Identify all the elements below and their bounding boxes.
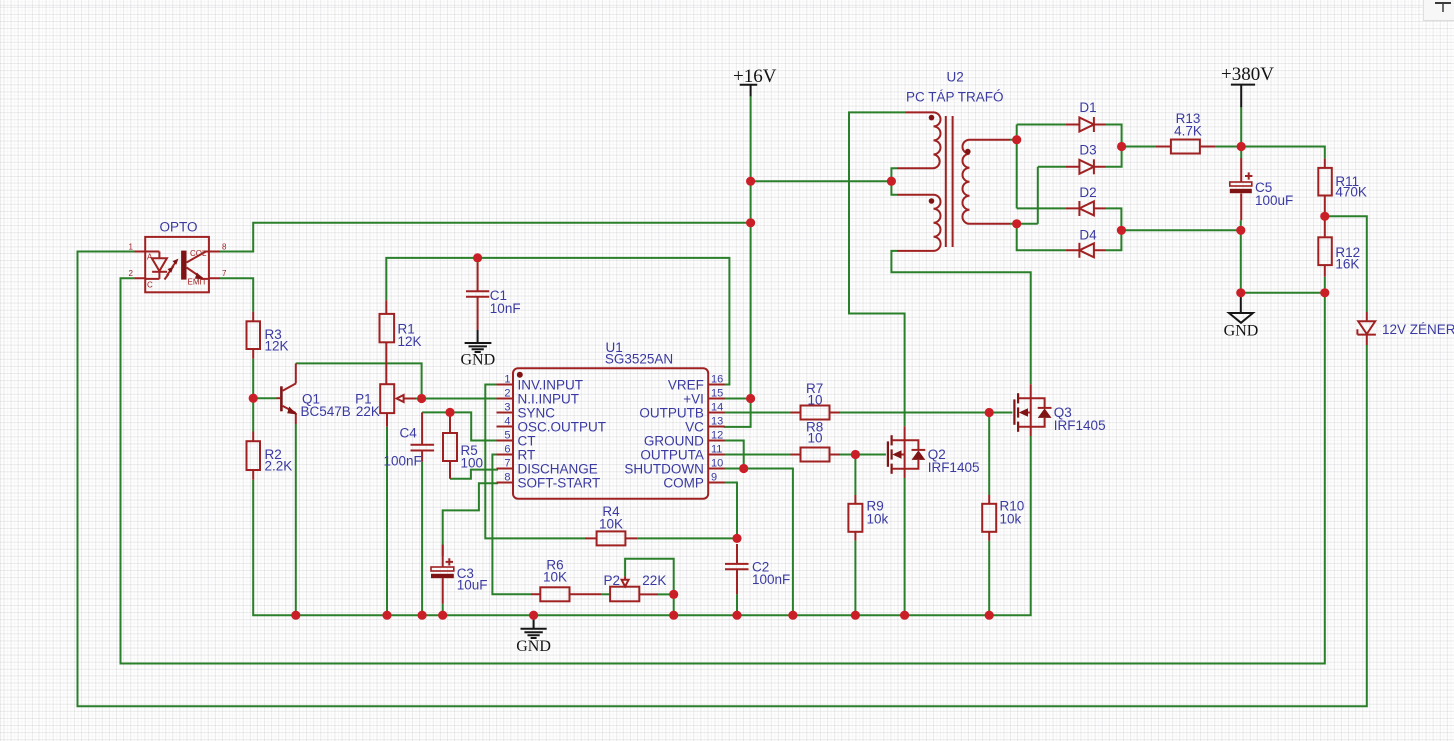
resistor R10 bbox=[982, 504, 996, 532]
wire R7 right to Q3 gate bbox=[840, 412, 1012, 414]
wire D3 left column bbox=[1037, 167, 1039, 224]
svg-text:10: 10 bbox=[711, 458, 723, 470]
resistor R11 bbox=[1318, 168, 1332, 196]
svg-text:RT: RT bbox=[518, 448, 536, 463]
svg-text:+16V: +16V bbox=[733, 66, 777, 87]
svg-text:22K: 22K bbox=[642, 573, 666, 588]
svg-text:5: 5 bbox=[504, 430, 510, 442]
svg-text:GND: GND bbox=[460, 352, 495, 369]
wire pin15 +VI stub to +16V vertical bbox=[724, 398, 751, 400]
wire OPTO pin8 to +16V rail node bbox=[220, 223, 751, 252]
wire RT net U1 pin6 down to R6 bbox=[492, 455, 531, 595]
node D1/D3 cathodes to R13 bbox=[1117, 142, 1126, 151]
IC U1 SG3525AN box bbox=[513, 368, 708, 499]
node C4 bottom on rail bbox=[418, 611, 427, 620]
svg-text:100nF: 100nF bbox=[752, 572, 790, 587]
node R7/R10/Q3 gate bbox=[985, 408, 994, 417]
transformer bottom primary polarity dot bbox=[929, 198, 935, 204]
node D2/D4 anodes bbox=[1117, 226, 1126, 235]
wire P1 bottom to rail bbox=[386, 427, 388, 616]
svg-text:100uF: 100uF bbox=[1255, 193, 1293, 208]
svg-text:12K: 12K bbox=[398, 334, 422, 349]
svg-text:7: 7 bbox=[504, 458, 510, 470]
transistor Q1 bbox=[280, 386, 283, 411]
node COMP/R4/C2 bbox=[732, 534, 741, 543]
wire C5 top stub bbox=[1240, 147, 1242, 159]
svg-text:10: 10 bbox=[808, 430, 823, 445]
svg-text:D4: D4 bbox=[1079, 227, 1097, 242]
wire R4 right to COMP node bbox=[637, 537, 737, 539]
OPTO pin stubs bbox=[135, 252, 221, 279]
svg-text:22K: 22K bbox=[356, 404, 380, 419]
node R11/R12/zener bbox=[1320, 212, 1329, 221]
wire C4 bottom to rail bbox=[421, 462, 423, 616]
node R3/Q1 base junction bbox=[249, 394, 258, 403]
wire D2 left lead bbox=[1017, 207, 1066, 209]
svg-text:N.I.INPUT: N.I.INPUT bbox=[518, 392, 580, 407]
svg-text:SOFT-START: SOFT-START bbox=[518, 476, 601, 491]
svg-text:A: A bbox=[147, 253, 153, 262]
GND triangle symbol under C5 bbox=[1240, 293, 1242, 313]
wire Q1 emitter down to rail bbox=[295, 424, 297, 615]
svg-text:INV.INPUT: INV.INPUT bbox=[518, 378, 584, 393]
wire OPTO pin2 to second bottom loop to R12/C5 ground node bbox=[121, 278, 1325, 663]
node pin12/pin10 junction bbox=[739, 464, 748, 473]
node P2 on rail bbox=[669, 611, 678, 620]
resistor R12 bbox=[1318, 237, 1332, 265]
svg-text:COL: COL bbox=[190, 249, 207, 258]
node R13/+380V/C5 top bbox=[1237, 142, 1246, 151]
svg-text:D2: D2 bbox=[1079, 185, 1096, 200]
svg-text:12V ZÉNER: 12V ZÉNER bbox=[1382, 322, 1454, 337]
svg-text:8: 8 bbox=[222, 242, 227, 251]
svg-text:C4: C4 bbox=[400, 426, 418, 441]
wire P2 wiper loop to right terminal bbox=[625, 559, 674, 595]
svg-text:OPTO: OPTO bbox=[160, 220, 198, 235]
wire secondary bottom terminal to D3 column bbox=[1010, 223, 1038, 225]
capacitor C2 bbox=[725, 564, 749, 569]
resistor R4 bbox=[597, 531, 626, 545]
node +16V to OPTO pin8 wire bbox=[746, 218, 755, 227]
MOSFET Q3 bbox=[1013, 399, 1015, 424]
svg-text:8: 8 bbox=[504, 472, 510, 484]
resistor R2 bbox=[247, 441, 261, 470]
svg-text:+380V: +380V bbox=[1221, 64, 1274, 85]
wire R5 bottom to U1 pin7 DISCHANGE bbox=[450, 470, 498, 479]
transformer top primary winding bbox=[897, 112, 941, 168]
svg-text:VREF: VREF bbox=[668, 378, 704, 393]
svg-text:IRF1405: IRF1405 bbox=[928, 460, 980, 475]
wire transformer center tap column bbox=[891, 168, 897, 194]
svg-text:12K: 12K bbox=[265, 338, 289, 353]
zener diode 12V bbox=[1366, 312, 1368, 345]
wire D1 left lead bbox=[1017, 124, 1066, 126]
wire U1 pin14 OUTPUTB to R7 bbox=[724, 412, 791, 414]
node +16V to transformer bbox=[746, 177, 755, 186]
capacitor C3 polarized bbox=[442, 545, 444, 604]
node +VI pin15 bbox=[746, 394, 755, 403]
wire R6 right to P2 left bbox=[601, 593, 610, 595]
optocoupler OPTO box bbox=[145, 237, 209, 292]
OPTO LED bbox=[145, 252, 159, 279]
node secondary top terminal bbox=[1012, 135, 1021, 144]
diode D1 bbox=[1066, 124, 1106, 126]
wire R10 column gate node to rail bbox=[988, 413, 990, 616]
wire +380V stub down bbox=[1240, 107, 1242, 146]
svg-text:P2: P2 bbox=[604, 573, 621, 588]
wire GND node to R12 bottom node bbox=[1241, 292, 1325, 294]
wire CT net C4/R5 top to U1 pin5 bbox=[422, 412, 498, 440]
U1 left pin numbers bbox=[504, 374, 510, 484]
wire Q2 source to rail bbox=[904, 478, 906, 615]
+16V supply symbol bbox=[740, 85, 758, 97]
diode D4 bbox=[1066, 249, 1106, 251]
wire C1 top stub bbox=[477, 258, 479, 263]
svg-text:SYNC: SYNC bbox=[518, 406, 556, 421]
wire C3 bottom to rail bbox=[442, 604, 444, 616]
svg-text:D3: D3 bbox=[1079, 143, 1096, 158]
svg-text:VC: VC bbox=[685, 420, 704, 435]
svg-text:3: 3 bbox=[504, 402, 510, 414]
wire D1 cathode to R13 node bbox=[1106, 125, 1122, 167]
node secondary bottom terminal bbox=[1012, 219, 1021, 228]
svg-text:10uF: 10uF bbox=[457, 578, 488, 593]
U1 right pin stubs bbox=[708, 385, 725, 483]
wire C5 bottom column to GND triangle node bbox=[1240, 220, 1242, 292]
wire COMP node up to U1 pin9 bbox=[724, 483, 737, 539]
svg-text:OUTPUTA: OUTPUTA bbox=[640, 448, 704, 463]
wire D3 left lead bbox=[1038, 166, 1066, 168]
toolbar panel with text-tool icon bbox=[1423, 0, 1454, 21]
svg-text:2: 2 bbox=[129, 269, 134, 278]
wire D4 left column bbox=[1017, 224, 1066, 251]
svg-text:6: 6 bbox=[504, 444, 510, 456]
node C5 bottom / GND bbox=[1236, 288, 1245, 297]
svg-text:16: 16 bbox=[711, 374, 723, 386]
svg-text:100nF: 100nF bbox=[384, 453, 422, 468]
earth GND symbol at rail bbox=[533, 615, 535, 628]
wire C2 bottom to rail bbox=[736, 594, 738, 615]
svg-text:D1: D1 bbox=[1079, 100, 1096, 115]
svg-text:10K: 10K bbox=[543, 569, 567, 584]
svg-text:9: 9 bbox=[711, 472, 717, 484]
node R12 bottom / ground return bbox=[1320, 288, 1329, 297]
svg-text:C: C bbox=[147, 281, 153, 290]
potentiometer P2 bbox=[610, 587, 639, 602]
wire D2/D4 node to C5 bottom column bbox=[1121, 229, 1240, 231]
node C3 bottom on rail bbox=[438, 611, 447, 620]
svg-text:COMP: COMP bbox=[663, 476, 704, 491]
transformer top primary polarity dot bbox=[929, 115, 935, 121]
svg-text:470K: 470K bbox=[1335, 185, 1367, 200]
resistor R13 bbox=[1171, 140, 1200, 154]
svg-text:OUTPUTB: OUTPUTB bbox=[639, 406, 704, 421]
svg-text:DISCHANGE: DISCHANGE bbox=[518, 462, 598, 477]
wire R2 bottom to ground rail, rail to Q3 source bbox=[253, 436, 1030, 615]
wire R8 right to Q2 gate bbox=[840, 454, 886, 456]
node Q1 emitter on rail bbox=[291, 611, 300, 620]
node R9 bottom on rail bbox=[851, 611, 860, 620]
node transformer center tap bbox=[887, 177, 896, 186]
transformer U2 core bbox=[946, 116, 953, 247]
node D2/D4 net on C5 column bbox=[1236, 226, 1245, 235]
wire U1 pin11 OUTPUTA to R8 bbox=[724, 454, 791, 456]
OPTO light arrows bbox=[170, 262, 177, 272]
diode D3 bbox=[1066, 166, 1106, 168]
svg-text:BC547B: BC547B bbox=[301, 404, 351, 419]
svg-text:U2: U2 bbox=[947, 70, 964, 85]
svg-text:4: 4 bbox=[504, 416, 510, 428]
wire U1 pin8 SOFT-START to C3 top bbox=[443, 483, 498, 556]
svg-text:1: 1 bbox=[129, 242, 134, 251]
svg-text:11: 11 bbox=[711, 444, 722, 456]
svg-text:15: 15 bbox=[711, 388, 723, 400]
resistor R7 bbox=[801, 406, 830, 420]
svg-text:OSC.OUTPUT: OSC.OUTPUT bbox=[518, 420, 607, 435]
node R10 bottom on rail bbox=[985, 611, 994, 620]
transformer secondary polarity dot bbox=[965, 149, 971, 155]
wire P2 right terminal to node to rail bbox=[658, 594, 674, 615]
wire Q1 collector to P1 wiper node bbox=[296, 363, 422, 398]
U1 left pin names bbox=[518, 378, 607, 491]
node C1 top on VREF wire bbox=[473, 253, 482, 262]
svg-text:2.2K: 2.2K bbox=[265, 458, 293, 473]
node R5 top on CT rail bbox=[445, 408, 454, 417]
svg-text:4.7K: 4.7K bbox=[1174, 124, 1202, 139]
U1 pin1 marker dot bbox=[517, 372, 523, 378]
svg-text:10K: 10K bbox=[599, 517, 623, 532]
svg-text:SG3525AN: SG3525AN bbox=[605, 352, 673, 367]
wire U1 pin16 VREF up and left to R1 top and C1 bbox=[386, 258, 729, 385]
svg-text:14: 14 bbox=[711, 402, 723, 414]
transformer secondary winding bbox=[962, 140, 1010, 224]
wire transformer top primary to Q2 drain bbox=[849, 112, 906, 426]
capacitor C5 polarized bbox=[1240, 158, 1242, 220]
svg-text:10k: 10k bbox=[867, 511, 889, 526]
node P1 bottom on rail bbox=[382, 611, 391, 620]
svg-text:100: 100 bbox=[461, 456, 484, 471]
wire +16V node to transformer center tap bbox=[751, 180, 892, 182]
wire U1 pin12 GROUND jog to pin10 row bbox=[724, 441, 744, 469]
OPTO emitter line with arrow bbox=[187, 268, 209, 279]
capacitor C1 bbox=[466, 291, 489, 297]
node Q2 source on rail bbox=[900, 611, 909, 620]
svg-text:7: 7 bbox=[222, 269, 227, 278]
+380V supply symbol bbox=[1231, 85, 1255, 108]
svg-text:12: 12 bbox=[711, 430, 723, 442]
earth GND symbol under C1 bbox=[477, 330, 479, 342]
wire U1 pin10 SHUTDOWN row to ground rail bbox=[724, 469, 793, 616]
wire R11 bottom lead green bbox=[1324, 277, 1326, 293]
svg-text:SHUTDOWN: SHUTDOWN bbox=[624, 462, 704, 477]
svg-text:CT: CT bbox=[518, 434, 536, 449]
wire D2 anode to D4 anode column bbox=[1106, 208, 1122, 250]
wire R9 column gate node to rail bbox=[854, 455, 856, 616]
OPTO phototransistor bar bbox=[181, 251, 186, 280]
svg-text:EMIT: EMIT bbox=[188, 278, 207, 287]
node C2 bottom on rail bbox=[732, 611, 741, 620]
resistor R5 bbox=[443, 433, 457, 461]
node P1 wiper / N.I. bbox=[417, 394, 426, 403]
svg-text:GND: GND bbox=[516, 638, 551, 655]
U1 right pin numbers bbox=[711, 374, 723, 484]
resistor R8 bbox=[801, 448, 830, 462]
svg-text:GND: GND bbox=[1224, 323, 1259, 340]
svg-text:16K: 16K bbox=[1335, 256, 1359, 271]
MOSFET Q2 bbox=[887, 441, 889, 466]
diode D2 bbox=[1066, 207, 1106, 209]
wire R3 bottom to base node to R2 top bbox=[252, 359, 254, 432]
resistor R1 bbox=[380, 314, 395, 342]
wire R13 right to +380V node to R11 top bbox=[1215, 147, 1325, 159]
wire base node to Q1 base bbox=[253, 397, 276, 399]
svg-text:1: 1 bbox=[504, 374, 510, 386]
node R8/R9/Q2 gate bbox=[851, 450, 860, 459]
svg-text:PC TÁP TRAFÓ: PC TÁP TRAFÓ bbox=[906, 89, 1004, 104]
wire transformer bottom primary to Q3 drain bbox=[891, 251, 1030, 384]
node shutdown net on rail bbox=[788, 611, 797, 620]
svg-text:GROUND: GROUND bbox=[644, 434, 704, 449]
wire D1/D2 left column bbox=[1016, 125, 1018, 209]
svg-text:+VI: +VI bbox=[683, 392, 704, 407]
transformer bottom primary winding bbox=[897, 195, 941, 251]
svg-text:10: 10 bbox=[808, 393, 823, 408]
resistor R3 bbox=[247, 321, 261, 349]
svg-text:IRF1405: IRF1405 bbox=[1054, 418, 1106, 433]
OPTO collector line bbox=[187, 252, 209, 263]
wire P1 wiper node to U1 pin2 bbox=[416, 398, 498, 400]
svg-text:10nF: 10nF bbox=[490, 301, 521, 316]
potentiometer P1 bbox=[380, 384, 394, 413]
U1 right pin names bbox=[624, 378, 704, 491]
wire U1 pin1 INV.INPUT down to R4 left bbox=[485, 385, 585, 539]
svg-text:10k: 10k bbox=[1000, 511, 1022, 526]
wire R13 node to R13 left bbox=[1122, 146, 1156, 148]
node P2 right terminal bbox=[669, 590, 678, 599]
U1 left pin stubs bbox=[497, 385, 514, 483]
svg-text:13: 13 bbox=[711, 416, 723, 428]
svg-text:2: 2 bbox=[504, 388, 510, 400]
wire OPTO pin1 to bottom outer loop to zener bottom bbox=[78, 252, 1367, 707]
resistor R9 bbox=[848, 504, 862, 532]
capacitor C4 bbox=[411, 445, 435, 451]
wire OPTO pin7 down to R3 bbox=[220, 278, 253, 311]
resistor R6 bbox=[540, 587, 569, 601]
node GND symbol on rail bbox=[529, 611, 538, 620]
wire +16V vertical to pin15 and pin13 bbox=[724, 96, 751, 427]
wire R11/R12 junction to zener top bbox=[1325, 216, 1367, 312]
wire secondary top terminal to D1/D2 column bbox=[1010, 139, 1017, 141]
